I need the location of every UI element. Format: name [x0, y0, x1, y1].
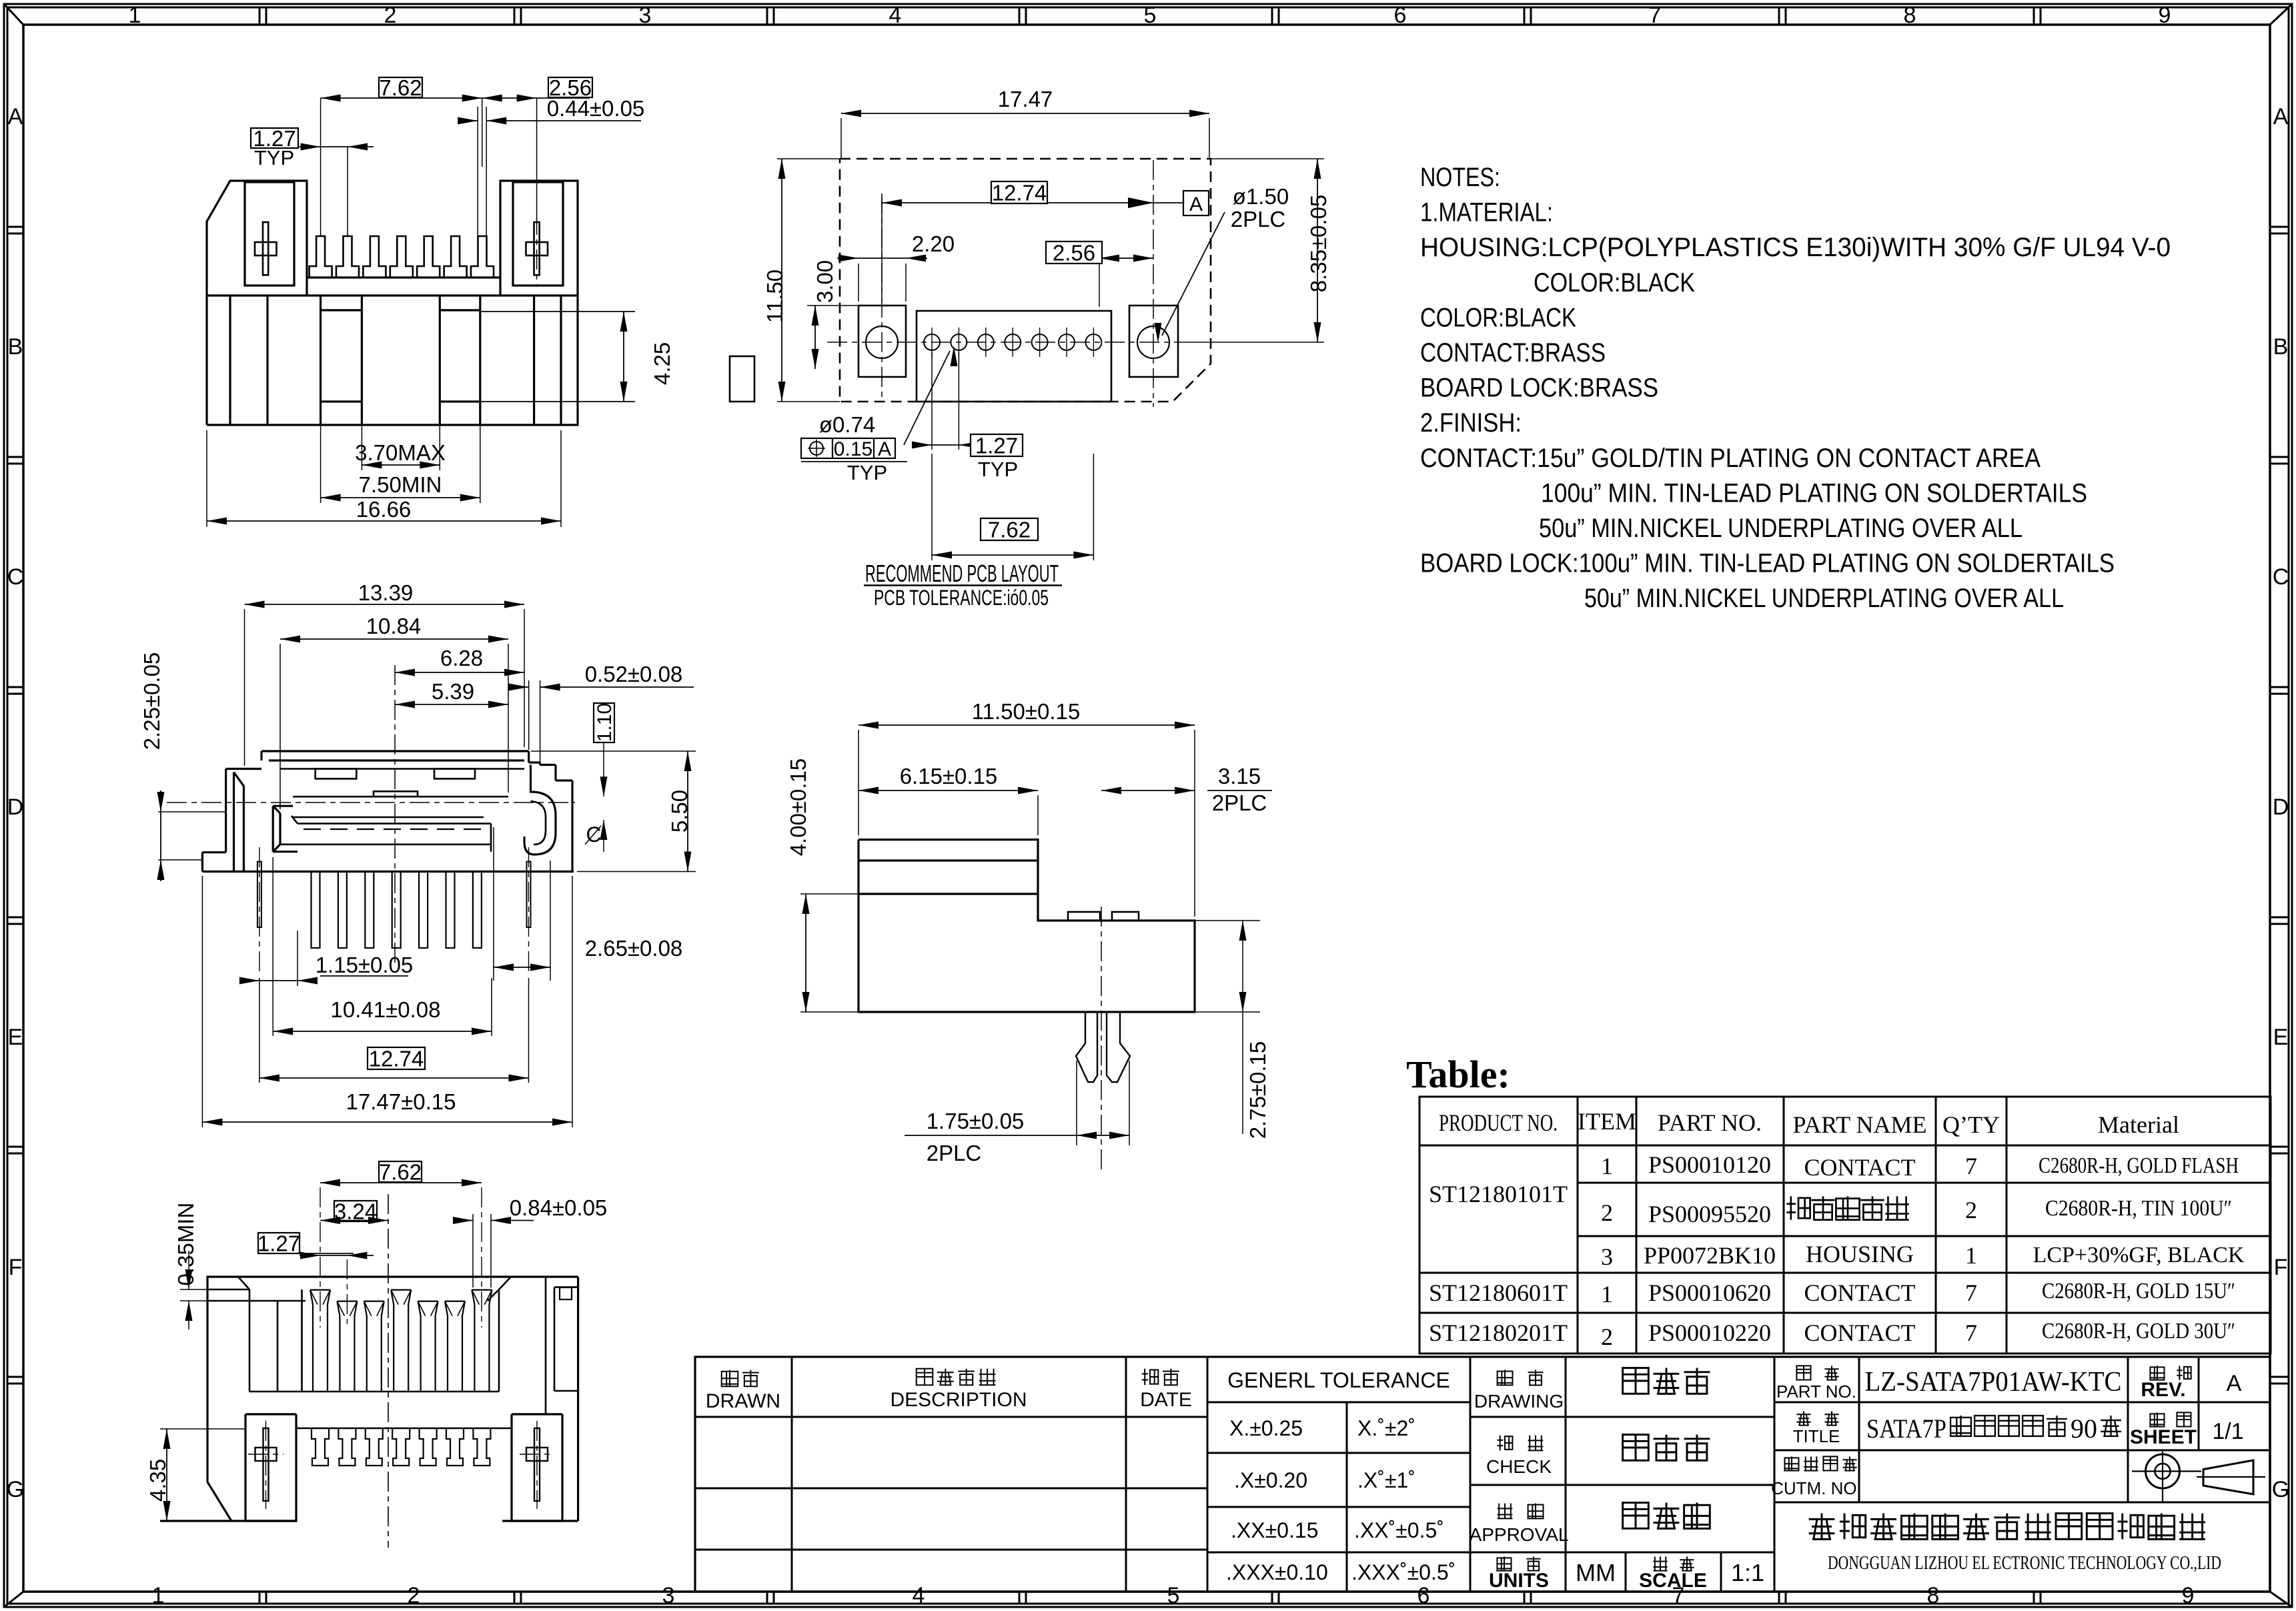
svg-text:UNITS: UNITS: [1489, 1570, 1549, 1592]
svg-text:2.75±0.15: 2.75±0.15: [1245, 1041, 1270, 1139]
svg-text:5: 5: [1144, 3, 1157, 28]
parts table hanzi part name: [1790, 1196, 1792, 1219]
svg-text:D: D: [7, 794, 24, 820]
title block label drawing: [1498, 1372, 1513, 1386]
svg-text:3: 3: [662, 1583, 675, 1608]
view5 dim 3.24: [334, 1201, 377, 1221]
title block company: [1809, 1518, 1835, 1520]
view1 dim 4.25: [480, 311, 635, 312]
view2 dim 8.35: [1211, 158, 1324, 159]
svg-text:3.15: 3.15: [1218, 764, 1261, 788]
svg-text:50u” MIN.NICKEL UNDERPLATING O: 50u” MIN.NICKEL UNDERPLATING OVER ALL: [1539, 514, 2023, 543]
view3 flange top left: [226, 768, 261, 770]
view3 dim 2.25: [158, 811, 225, 813]
view2 dim 2.56: [1099, 263, 1100, 307]
view3 shell mouth front: [272, 806, 274, 852]
svg-text:TITLE: TITLE: [1793, 1426, 1840, 1446]
title block units row cells: [1625, 1552, 1627, 1592]
svg-text:CHECK: CHECK: [1486, 1456, 1552, 1477]
svg-text:1:1: 1:1: [1731, 1559, 1764, 1586]
svg-text:MM: MM: [1576, 1559, 1616, 1586]
view2 main centerline: [827, 342, 1194, 343]
svg-text:G: G: [7, 1477, 24, 1502]
view1 dim 2.56 top: [482, 95, 502, 102]
svg-text:BOARD LOCK:100u” MIN. TIN-LEAD: BOARD LOCK:100u” MIN. TIN-LEAD PLATING O…: [1420, 549, 2115, 578]
view3 left flange profile: [225, 769, 227, 853]
svg-text:0.84±0.05: 0.84±0.05: [510, 1195, 608, 1220]
svg-text:7: 7: [1965, 1319, 1977, 1346]
svg-text:50u” MIN.NICKEL UNDERPLATING O: 50u” MIN.NICKEL UNDERPLATING OVER ALL: [1584, 584, 2064, 613]
svg-text:DESCRIPTION: DESCRIPTION: [890, 1389, 1027, 1411]
svg-text:1: 1: [1965, 1242, 1977, 1269]
svg-text:PRODUCT NO.: PRODUCT NO.: [1439, 1109, 1558, 1136]
view1 dim 1.27 TYP: [251, 128, 298, 148]
svg-text:LZ-SATA7P01AW-KTC: LZ-SATA7P01AW-KTC: [1865, 1367, 2122, 1398]
view2 pin holes x7: [924, 334, 940, 350]
svg-text:7.50MIN: 7.50MIN: [359, 472, 442, 497]
view5 right ear: [512, 1414, 562, 1521]
view5 vertical centerline: [388, 1194, 389, 1548]
svg-text:2.56: 2.56: [1053, 240, 1095, 265]
view1 right ear inner rect: [513, 182, 563, 286]
view3 board lock pin right: [527, 862, 531, 927]
svg-text:CONTACT: CONTACT: [1804, 1279, 1915, 1306]
svg-text:C2680R-H, GOLD FLASH: C2680R-H, GOLD FLASH: [2039, 1153, 2239, 1178]
svg-text:A: A: [878, 438, 891, 460]
parts table grid: [1419, 1097, 2271, 1354]
view2 hole centerlines: [881, 193, 883, 400]
svg-text:ST12180601T: ST12180601T: [1429, 1279, 1568, 1306]
svg-text:1: 1: [1601, 1153, 1613, 1179]
svg-text:DATE: DATE: [1140, 1389, 1192, 1411]
view3 solder pins x7: [312, 872, 320, 949]
view2 dim 3.00: [807, 305, 858, 306]
view1 housing top shoulder line: [207, 294, 578, 296]
svg-text:E: E: [8, 1025, 23, 1050]
svg-text:C2680R-H, GOLD 15U″: C2680R-H, GOLD 15U″: [2042, 1279, 2235, 1303]
svg-text:2.FINISH:: 2.FINISH:: [1420, 408, 1522, 438]
svg-text:PCB TOLERANCE:ió0.05: PCB TOLERANCE:ió0.05: [874, 586, 1049, 610]
view3 body bottom: [202, 871, 574, 873]
svg-text:APPROVAL: APPROVAL: [1470, 1524, 1569, 1545]
view3 vertical centerline: [394, 665, 396, 967]
svg-text:2: 2: [1601, 1323, 1613, 1350]
view4 plate lines: [858, 859, 1038, 861]
view5 cross right: [534, 1428, 540, 1501]
view4 centerline: [1101, 907, 1102, 1170]
svg-text:GENERL TOLERANCE: GENERL TOLERANCE: [1227, 1368, 1450, 1392]
view1 left ear inner rect: [245, 182, 294, 286]
svg-text:Q’TY: Q’TY: [1942, 1111, 2000, 1138]
svg-text:DRAWN: DRAWN: [706, 1390, 780, 1412]
view3 right side staircase: [528, 751, 530, 762]
title block outer: [695, 1357, 2270, 1592]
svg-text:12.74: 12.74: [992, 180, 1047, 205]
svg-text:SHEET: SHEET: [2130, 1426, 2197, 1448]
svg-text:6.15±0.15: 6.15±0.15: [900, 764, 998, 788]
view5 dim 7.62: [379, 1161, 422, 1182]
svg-text:ITEM: ITEM: [1578, 1108, 1636, 1135]
svg-text:3.70MAX: 3.70MAX: [355, 440, 446, 465]
view4 dim 4.00: [800, 893, 858, 895]
svg-text:7.62: 7.62: [379, 1159, 422, 1184]
svg-text:TYP: TYP: [254, 146, 294, 169]
view3 tongue centerline: [167, 802, 575, 803]
svg-text:4: 4: [913, 1583, 925, 1608]
svg-text:REV.: REV.: [2141, 1379, 2185, 1401]
svg-text:1: 1: [1601, 1281, 1613, 1307]
view3 dim 2.65: [493, 827, 494, 981]
svg-text:1.27: 1.27: [257, 1231, 300, 1255]
svg-text:B: B: [8, 334, 23, 360]
title block label units: [1497, 1558, 1511, 1570]
svg-text:2.20: 2.20: [912, 231, 955, 256]
view3 tongue top: [293, 796, 508, 798]
svg-text:1.15±0.05: 1.15±0.05: [316, 953, 414, 977]
svg-text:A: A: [2227, 1371, 2242, 1396]
view4 press-fit pin: [1076, 1012, 1097, 1082]
view3 dim 1.10 boxed: [594, 703, 614, 742]
svg-text:ø0.74: ø0.74: [819, 412, 875, 437]
view5 ears top edges: [245, 1413, 296, 1415]
view1 connector front view body outline: [207, 181, 307, 425]
svg-text:CONTACT:BRASS: CONTACT:BRASS: [1420, 338, 1606, 368]
svg-text:1: 1: [152, 1583, 165, 1608]
view5 contact slots x7: [310, 1290, 313, 1392]
svg-text:3: 3: [639, 3, 652, 28]
svg-text:LCP+30%GF, BLACK: LCP+30%GF, BLACK: [2033, 1243, 2245, 1267]
view3 ear front face: [234, 772, 244, 786]
title block cutm no: [1784, 1458, 1798, 1470]
frame column ticks top/bottom: [259, 7, 261, 25]
svg-text:A: A: [1189, 193, 1203, 215]
svg-text:16.66: 16.66: [356, 497, 412, 522]
svg-text:CUTM. NO.: CUTM. NO.: [1771, 1478, 1862, 1498]
view1 contact teeth x7: [310, 236, 332, 278]
svg-text:1.75±0.05: 1.75±0.05: [927, 1109, 1025, 1133]
title block left section grid: [791, 1357, 793, 1592]
view3 tongue mid lines: [292, 817, 484, 819]
view3 dim 10.41: [272, 857, 273, 1036]
svg-text:A: A: [2273, 104, 2289, 129]
svg-text:2: 2: [1965, 1197, 1977, 1223]
svg-text:C: C: [7, 564, 24, 590]
view2 right mount pad square: [1129, 306, 1178, 377]
svg-text:17.47: 17.47: [998, 87, 1053, 111]
svg-text:1.MATERIAL:: 1.MATERIAL:: [1420, 198, 1553, 227]
view2 dim 12.74 with datum A: [881, 197, 883, 302]
svg-text:9: 9: [2182, 1583, 2195, 1608]
view1 pin7 edge extension lines: [477, 107, 478, 236]
view2 dim 2.20: [858, 263, 859, 302]
svg-text:90: 90: [2071, 1414, 2097, 1444]
view2 dim 1.27 TYP: [931, 352, 933, 450]
svg-text:PART NO.: PART NO.: [1776, 1382, 1856, 1402]
svg-text:X.˚±2˚: X.˚±2˚: [1357, 1416, 1415, 1440]
svg-text:1/1: 1/1: [2212, 1419, 2243, 1444]
svg-text:PP0072BK10: PP0072BK10: [1644, 1242, 1776, 1269]
svg-text:TYP: TYP: [978, 458, 1018, 481]
view3 dim 17.47: [201, 876, 203, 1127]
view3 shell lower edge with latch holes: [280, 768, 524, 770]
svg-text:X.±0.25: X.±0.25: [1229, 1416, 1303, 1440]
svg-text:2: 2: [408, 1583, 420, 1608]
svg-text:0.15: 0.15: [834, 438, 873, 460]
svg-text:Table:: Table:: [1406, 1053, 1510, 1096]
svg-text:PS00010220: PS00010220: [1648, 1319, 1771, 1346]
view5 dim 0.35MIN: [180, 1289, 207, 1290]
svg-text:5: 5: [1167, 1583, 1180, 1608]
view1 lower body verticals: [229, 296, 231, 425]
title block label approval: [1498, 1504, 1500, 1519]
svg-text:HOUSING: HOUSING: [1806, 1241, 1914, 1267]
svg-text:5.39: 5.39: [432, 679, 474, 704]
svg-text:3: 3: [1601, 1243, 1613, 1270]
view2 dim 17.47: [840, 118, 842, 159]
title block label check: [1500, 1436, 1501, 1451]
title block signature names: [1623, 1368, 1649, 1394]
svg-text:2: 2: [384, 3, 397, 28]
view3 board lock pin left: [257, 862, 261, 927]
title block projection symbol: [2146, 1454, 2180, 1488]
view3 dim 0.52: [528, 680, 530, 750]
view3 dim 13.39: [244, 609, 245, 766]
svg-text:SCALE: SCALE: [1639, 1570, 1707, 1592]
svg-text:8: 8: [1927, 1583, 1940, 1608]
view2 dim 11.50: [777, 158, 840, 159]
svg-text:12.74: 12.74: [369, 1046, 424, 1071]
svg-text:DRAWING: DRAWING: [1474, 1391, 1564, 1412]
view4 solder tabs: [1068, 912, 1100, 921]
svg-text:ST12180201T: ST12180201T: [1429, 1319, 1568, 1346]
view5 slot block: [249, 1391, 499, 1393]
svg-text:10.84: 10.84: [366, 614, 422, 638]
svg-text:7: 7: [1965, 1279, 1977, 1306]
view5 pin centerlines: [320, 1187, 321, 1327]
view1 board-lock cross right: [534, 222, 540, 275]
view5 dim 4.35: [160, 1428, 245, 1430]
svg-text:.XX˚±0.5˚: .XX˚±0.5˚: [1354, 1518, 1444, 1542]
svg-text:ST12180101T: ST12180101T: [1429, 1181, 1568, 1207]
svg-text:1: 1: [129, 3, 141, 28]
svg-text:A: A: [8, 104, 23, 129]
svg-text:11.50±0.15: 11.50±0.15: [972, 699, 1080, 724]
svg-text:SATA7P: SATA7P: [1866, 1414, 1946, 1444]
svg-text:D: D: [2273, 794, 2289, 820]
svg-text:PS00095520: PS00095520: [1648, 1201, 1771, 1227]
view4 body outline: [858, 840, 1195, 1012]
svg-text:.X±0.20: .X±0.20: [1234, 1468, 1307, 1492]
view1 board-lock cross left: [263, 222, 268, 275]
title block drawn/description/date headers: [722, 1372, 738, 1386]
svg-text:4.25: 4.25: [650, 342, 674, 385]
title block signatures section: [1470, 1357, 1472, 1592]
view3 dim 5.50: [531, 750, 696, 752]
svg-text:4.35: 4.35: [145, 1459, 170, 1502]
svg-text:TYP: TYP: [847, 461, 887, 484]
svg-text:17.47±0.15: 17.47±0.15: [346, 1089, 456, 1114]
svg-text:C: C: [2273, 564, 2289, 590]
view5 right latch cavity: [545, 1277, 547, 1414]
svg-text:0.52±0.08: 0.52±0.08: [585, 662, 683, 686]
svg-text:2PLC: 2PLC: [1231, 207, 1286, 231]
view2 left mount hole circle: [866, 326, 898, 358]
svg-text:13.39: 13.39: [358, 580, 414, 605]
view5 dim 0.84: [472, 1214, 474, 1287]
view1 socket cavity left: [320, 296, 322, 425]
view2 footprint rect: [917, 311, 1111, 402]
svg-text:2: 2: [1601, 1199, 1613, 1226]
view1 socket cavity right: [439, 296, 441, 425]
svg-text:B: B: [2273, 334, 2289, 360]
title block title: [1796, 1414, 1810, 1415]
svg-text:1.27: 1.27: [975, 433, 1018, 458]
title block tolerance section: [1346, 1402, 1348, 1592]
svg-text:C2680R-H, GOLD 30U″: C2680R-H, GOLD 30U″: [2042, 1319, 2235, 1344]
svg-text:0.35MIN: 0.35MIN: [173, 1203, 198, 1286]
svg-text:2PLC: 2PLC: [927, 1141, 982, 1165]
svg-text:0.44±0.05: 0.44±0.05: [547, 96, 645, 121]
view4 dim 3.15 2PLC: [1101, 790, 1195, 791]
svg-text:PART NO.: PART NO.: [1658, 1109, 1762, 1136]
view1 dim 7.50MIN: [320, 425, 322, 503]
svg-text:2.25±0.05: 2.25±0.05: [139, 652, 164, 750]
svg-text:6.28: 6.28: [440, 646, 483, 670]
frame corner diagonals: [4, 4, 23, 25]
frame row ticks left/right: [7, 226, 23, 228]
svg-text:7: 7: [1965, 1153, 1977, 1179]
view5 middle base line: [296, 1428, 512, 1430]
svg-text:1.10: 1.10: [594, 703, 616, 742]
svg-text:G: G: [2272, 1477, 2289, 1502]
svg-text:8.35±0.05: 8.35±0.05: [1306, 195, 1331, 293]
svg-text:7.62: 7.62: [988, 517, 1031, 542]
view2 pcb outline dashed: [840, 159, 1211, 402]
view5 dim 1.27: [258, 1233, 300, 1253]
svg-text:COLOR:BLACK: COLOR:BLACK: [1534, 268, 1695, 298]
view5 cross left: [263, 1428, 269, 1501]
title block sheet: [2150, 1414, 2164, 1426]
view3 dim 12.74 boxed: [368, 1047, 425, 1069]
svg-text:100u” MIN. TIN-LEAD PLATING ON: 100u” MIN. TIN-LEAD PLATING ON SOLDERTAI…: [1541, 478, 2087, 508]
view3 dim 1.15: [297, 931, 298, 986]
svg-text:HOUSING:LCP(POLYPLASTICS E130i: HOUSING:LCP(POLYPLASTICS E130i)WITH 30% …: [1420, 233, 2171, 262]
svg-text:2.65±0.08: 2.65±0.08: [585, 936, 683, 961]
view1 dim 3.70MAX: [361, 425, 362, 470]
svg-text:RECOMMEND PCB LAYOUT: RECOMMEND PCB LAYOUT: [865, 560, 1059, 587]
view2 dim 7.62 bottom: [931, 454, 933, 560]
svg-text:11.50: 11.50: [762, 270, 787, 323]
svg-text:6: 6: [1417, 1583, 1430, 1608]
view4 dim 2.75: [1195, 920, 1260, 921]
svg-text:.XX±0.15: .XX±0.15: [1231, 1518, 1318, 1542]
svg-text:5.50: 5.50: [667, 790, 692, 833]
svg-text:6: 6: [1394, 3, 1407, 28]
view4 dim 11.50: [858, 730, 859, 835]
svg-text:F: F: [9, 1255, 23, 1280]
view1 comb base: [307, 276, 500, 278]
svg-text:NOTES:: NOTES:: [1420, 163, 1500, 192]
view3 board lock hook: [524, 765, 556, 855]
view2 right mount hole circle: [1137, 326, 1169, 358]
svg-text:3.00: 3.00: [812, 260, 837, 303]
view1 dim 16.66: [206, 430, 207, 527]
view2 left mount pad square: [858, 306, 906, 377]
svg-text:4: 4: [889, 3, 902, 28]
svg-text:BOARD LOCK:BRASS: BOARD LOCK:BRASS: [1420, 374, 1658, 403]
svg-text:ø1.50: ø1.50: [1233, 184, 1289, 209]
svg-text:8: 8: [1904, 3, 1916, 28]
svg-text:2PLC: 2PLC: [1212, 790, 1267, 815]
svg-text:Material: Material: [2098, 1111, 2179, 1138]
title block rev: [2150, 1367, 2164, 1380]
view5 body outline: [207, 1277, 578, 1521]
svg-text:CONTACT: CONTACT: [1804, 1154, 1915, 1181]
svg-text:F: F: [2274, 1255, 2288, 1280]
svg-text:E: E: [2273, 1025, 2289, 1050]
view5 left ear: [245, 1414, 296, 1521]
svg-text:C2680R-H, TIN 100U″: C2680R-H, TIN 100U″: [2045, 1196, 2232, 1221]
view1 dim 7.62 top: [321, 97, 590, 99]
view5 top inner lines: [207, 1289, 249, 1291]
title block part no: [1796, 1366, 1810, 1380]
svg-text:PS00010120: PS00010120: [1648, 1151, 1771, 1178]
view1 pin1 pin7 centerlines: [320, 98, 322, 236]
svg-text:DONGGUAN LIZHOU EL ECTRONIC TE: DONGGUAN LIZHOU EL ECTRONIC TECHNOLOGY C…: [1828, 1553, 2221, 1574]
svg-text:9: 9: [2159, 3, 2171, 28]
svg-text:.XXX˚±0.5˚: .XXX˚±0.5˚: [1351, 1560, 1456, 1584]
svg-text:PART NAME: PART NAME: [1793, 1111, 1927, 1138]
view3 shell top lines: [261, 750, 529, 752]
svg-text:CONTACT: CONTACT: [1804, 1319, 1915, 1346]
view1 dim 0.44: [462, 120, 478, 121]
svg-text:PS00010620: PS00010620: [1648, 1279, 1771, 1306]
svg-text:4.00±0.15: 4.00±0.15: [786, 758, 810, 857]
svg-text:.XXX±0.10: .XXX±0.10: [1226, 1560, 1328, 1584]
svg-text:7.62: 7.62: [379, 75, 422, 100]
view5 tails x7: [312, 1428, 329, 1466]
svg-text:10.41±0.08: 10.41±0.08: [331, 997, 441, 1022]
svg-text:7: 7: [1649, 3, 1662, 28]
view2 pcb break rect far-left: [730, 356, 754, 402]
view4 dim 6.15: [1037, 795, 1039, 835]
view3 dim 10.84: [279, 644, 281, 809]
svg-text:COLOR:BLACK: COLOR:BLACK: [1420, 303, 1576, 332]
view4 dim 1.75 2PLC: [1076, 1061, 1077, 1145]
title block right section grid: [1858, 1357, 1860, 1502]
svg-text:.X˚±1˚: .X˚±1˚: [1357, 1468, 1415, 1492]
svg-text:CONTACT:15u” GOLD/TIN PLATING: CONTACT:15u” GOLD/TIN PLATING ON CONTACT…: [1420, 444, 2041, 473]
